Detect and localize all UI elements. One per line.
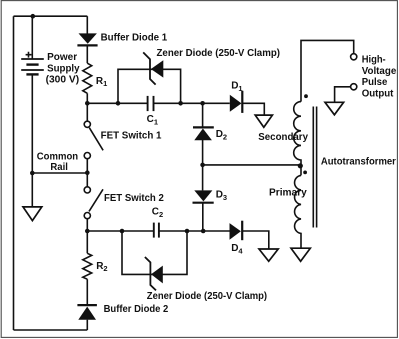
- diode D1: [230, 91, 243, 113]
- svg-text:R1: R1: [96, 76, 107, 88]
- ground output: [325, 102, 344, 115]
- FET switch 1: [84, 121, 103, 158]
- wire D4 to ground: [243, 231, 269, 249]
- svg-text:Buffer Diode 2: Buffer Diode 2: [104, 304, 169, 315]
- wire battery column upper: [31, 16, 33, 59]
- wire D1 to ground: [243, 103, 264, 115]
- svg-text:Buffer Diode 1: Buffer Diode 1: [101, 32, 168, 43]
- svg-text:Rail: Rail: [50, 162, 68, 173]
- FET switch 2: [84, 187, 103, 219]
- node zener1 left: [116, 101, 121, 106]
- wire C2 left: [87, 230, 154, 232]
- svg-text:C2: C2: [152, 206, 163, 219]
- svg-text:High-: High-: [362, 54, 386, 65]
- svg-text:D4: D4: [231, 243, 243, 256]
- svg-text:D2: D2: [216, 129, 227, 142]
- wire battery column lower: [31, 74, 33, 207]
- autotransformer secondary winding: [294, 102, 301, 176]
- wire left rail: [13, 16, 15, 330]
- node transformer tap: [298, 163, 303, 168]
- wire switch1 to switch2: [86, 159, 88, 187]
- wire C1 right: [154, 102, 230, 104]
- node battery top: [31, 14, 36, 19]
- svg-text:FET Switch 1: FET Switch 1: [101, 131, 162, 142]
- diode D4: [230, 221, 243, 241]
- node zener1 right: [178, 101, 183, 106]
- svg-text:D1: D1: [231, 80, 242, 93]
- wire common rail: [32, 172, 87, 174]
- wire bottom rail: [14, 329, 88, 331]
- ground common rail: [23, 207, 42, 221]
- autotransformer core line 1: [312, 107, 314, 228]
- ground D1: [255, 115, 272, 127]
- wire D2 to D3: [202, 140, 204, 190]
- svg-text:Primary: Primary: [269, 188, 307, 199]
- svg-text:FET Switch 2: FET Switch 2: [104, 193, 164, 204]
- ground D4: [259, 249, 278, 261]
- node R1 bottom: [85, 101, 90, 106]
- output terminal 2: [351, 84, 357, 90]
- diode D3: [193, 190, 214, 202]
- wire output terminal2 to ground: [335, 87, 351, 102]
- autotransformer primary winding: [295, 175, 301, 248]
- node D2 D3 tap: [200, 163, 205, 168]
- node zener2 left: [120, 229, 125, 234]
- capacitor C1: [148, 96, 154, 111]
- node rail battery: [30, 171, 35, 176]
- wire diode2 to bottom: [86, 320, 88, 330]
- battery power supply: [21, 52, 44, 75]
- node rail switch: [85, 170, 90, 175]
- resistor R1: [83, 63, 92, 93]
- wire main column top: [86, 16, 88, 33]
- wire R2 to diode2: [86, 279, 88, 305]
- svg-text:(300 V): (300 V): [46, 75, 80, 86]
- svg-text:R2: R2: [96, 261, 107, 273]
- svg-text:Zener Diode (250-V Clamp): Zener Diode (250-V Clamp): [157, 48, 281, 59]
- wire R1 to switch1: [86, 93, 88, 121]
- wire C1 left: [87, 102, 147, 104]
- svg-text:Autotransformer: Autotransformer: [321, 156, 396, 167]
- svg-text:D3: D3: [216, 190, 227, 203]
- diode D2: [193, 127, 214, 140]
- svg-text:Output: Output: [362, 89, 394, 100]
- zener diode Z2: [145, 257, 163, 290]
- wire D2 branch upper: [202, 103, 204, 127]
- wire switch2 to R2: [86, 219, 88, 254]
- svg-text:Supply: Supply: [47, 63, 80, 74]
- svg-text:Power: Power: [47, 52, 77, 63]
- node zener2 right: [185, 229, 190, 234]
- node D3 D4 branch: [201, 229, 206, 234]
- svg-text:Secondary: Secondary: [258, 132, 308, 143]
- wire zener2 loop: [122, 231, 187, 274]
- node switch2 bottom: [85, 229, 90, 234]
- zener diode Z1: [143, 52, 163, 84]
- wire top rail: [14, 15, 88, 17]
- buffer diode D(buffer1): [77, 33, 97, 45]
- wire C2 right: [159, 230, 230, 232]
- svg-text:Common: Common: [37, 151, 78, 162]
- output terminal 1: [351, 54, 357, 60]
- svg-text:C1: C1: [147, 114, 158, 127]
- wire output top: [301, 40, 354, 101]
- svg-text:Zener Diode (250-V Clamp): Zener Diode (250-V Clamp): [147, 291, 267, 302]
- resistor R2: [83, 253, 92, 279]
- autotransformer core line 2: [316, 107, 318, 228]
- phasing dot secondary: [304, 94, 308, 98]
- svg-text:Voltage: Voltage: [362, 66, 397, 77]
- wire transformer tap: [203, 164, 301, 166]
- svg-text:Pulse: Pulse: [362, 77, 388, 88]
- buffer diode D(buffer2): [77, 305, 97, 320]
- node D1 D2 branch: [200, 101, 205, 106]
- wire D3 to C2 rail: [202, 203, 204, 231]
- ground transformer: [291, 248, 310, 261]
- wire diode1 to R1: [86, 45, 88, 63]
- phasing dot primary: [303, 171, 307, 175]
- wire zener1 loop: [118, 69, 181, 103]
- capacitor C2: [154, 223, 159, 238]
